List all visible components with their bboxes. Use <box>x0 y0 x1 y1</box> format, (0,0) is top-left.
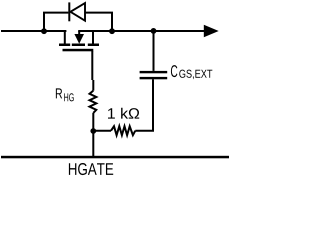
wire 1k to capacitor <box>135 79 153 130</box>
node left junction <box>41 28 47 34</box>
label R_HG: R <box>56 88 62 98</box>
transistor Q1 left channel bar <box>59 44 70 47</box>
transistor Q1 middle channel bar <box>72 44 85 47</box>
capacitor C_GS,EXT bottom plate <box>140 77 168 79</box>
node gate junction <box>90 128 96 134</box>
label C_GS,EXT: subscript GS,EXT <box>179 70 212 80</box>
resistor R_HG zigzag <box>90 91 97 113</box>
wire rail to capacitor <box>153 31 155 71</box>
transistor Q1 right channel bar <box>88 44 99 47</box>
label 1 kOhm <box>108 108 139 119</box>
wire gate to R_HG <box>92 51 93 91</box>
label C_GS,EXT: C <box>171 65 177 77</box>
wire top rail right segment <box>78 30 204 32</box>
transistor Q1 drain stub <box>64 31 66 44</box>
label HGATE <box>69 163 113 175</box>
wire diode loop <box>44 13 112 31</box>
wire top rail left segment <box>1 30 66 32</box>
capacitor C_GS,EXT top plate <box>140 71 168 73</box>
diode D1 cathode bar <box>68 2 70 21</box>
node capacitor tap junction <box>151 28 157 34</box>
node right junction <box>109 28 115 34</box>
transistor Q1 body arrow <box>78 31 80 34</box>
label R_HG: subscript HG <box>64 93 74 101</box>
transistor Q1 source stub <box>92 31 94 44</box>
transistor Q1 gate bar <box>63 49 94 52</box>
HGATE bus line <box>1 156 229 159</box>
wire 1k lead left <box>93 130 111 132</box>
wire R_HG to HGATE bus <box>92 113 94 157</box>
resistor 1k zigzag <box>111 126 135 135</box>
diode D1 triangle <box>70 3 85 21</box>
arrowhead on top rail (right) <box>204 25 219 38</box>
